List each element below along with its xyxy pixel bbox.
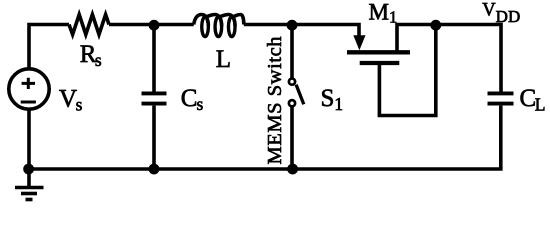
svg-text:Vs: Vs <box>59 86 83 115</box>
svg-text:VDD: VDD <box>482 1 520 26</box>
svg-text:CL: CL <box>520 85 546 115</box>
svg-text:M1: M1 <box>369 0 398 26</box>
svg-text:Rs: Rs <box>80 41 102 70</box>
svg-text:MEMS Switch: MEMS Switch <box>264 37 286 165</box>
svg-text:L: L <box>216 46 231 73</box>
svg-text:S1: S1 <box>321 85 344 114</box>
svg-text:Cs: Cs <box>181 85 204 114</box>
